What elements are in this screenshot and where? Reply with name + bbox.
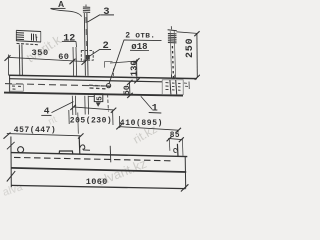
left end vertical [10,137,12,188]
right base block [162,80,183,95]
right column flanges [170,31,171,79]
right column center dashes [172,46,173,78]
label A squiggle [51,9,82,17]
tick left [5,55,11,61]
right column cap hatch [168,33,177,35]
plate corner blob [86,55,90,59]
dim 50 [129,82,131,95]
label 3 leader [100,14,114,16]
tick left mid [7,171,15,181]
dim 457(447) [7,134,81,136]
right stiffener [176,144,179,157]
svg-text:1: 1 [152,103,158,114]
hole circle [107,84,111,88]
svg-text:А: А [58,0,64,9]
label 1 underline [149,112,162,115]
dim 205(230) [73,107,114,110]
bracket hatch [17,32,25,34]
2 otv underline [124,39,162,42]
bottom edge [11,168,186,172]
svg-text:2: 2 [103,40,109,52]
below-beam verticals center [71,96,74,115]
center column flanges [84,13,85,76]
box 5 [89,96,95,98]
svg-text:350: 350 [32,48,49,58]
hidden corner [105,61,113,67]
beam left end [9,75,11,93]
label 12 underline [62,40,76,42]
dim line 350/60 [8,57,87,61]
svg-text:1060: 1060 [86,177,108,187]
dia18 underline [130,49,149,51]
bracket glyphs [32,34,38,41]
column centerline dashes [85,17,88,46]
svg-text:130: 130 [129,60,139,76]
leader 1 [141,96,153,109]
svg-text:60: 60 [58,52,69,62]
weld marks below beam center [89,85,110,89]
svg-text:12: 12 [63,33,75,44]
dim line 1060 [11,185,186,188]
leader dia18 [109,40,124,84]
beam mid line [5,84,115,87]
svg-text:250: 250 [185,38,196,58]
bump plate [59,151,72,154]
hole centerline dash [112,69,114,79]
tick right [82,59,88,65]
dashed plate 2 [81,51,93,61]
right end vertical [184,157,187,189]
beam bottom edge [4,93,183,96]
dim 85 [168,138,182,139]
tick mid [70,59,76,64]
circle clip [18,147,24,153]
top edge [11,153,187,157]
svg-text:ø18: ø18 [131,42,147,52]
weld box below beam left [9,84,23,91]
label 4 underline/leader [41,114,51,116]
beam second line [9,79,162,82]
dim 410(895) underline [119,127,178,131]
dim 250 [177,32,197,34]
svg-text:410(895): 410(895) [120,119,163,128]
beam top edge [9,75,197,78]
tick 1060 right [181,184,189,191]
right column top tick [170,26,172,29]
mid dashed [14,157,172,160]
svg-text:2 отв.: 2 отв. [125,31,155,40]
watermark [1,32,159,199]
dim 350/60 extension left [8,55,10,76]
svg-text:85: 85 [170,132,180,140]
center tick [109,146,112,163]
dashed ext [107,94,110,112]
dim 130 [110,61,138,63]
column left flange pair [72,47,75,76]
bracket posts [18,45,21,76]
left bracket console [16,30,41,31]
svg-text:205(230): 205(230) [70,116,112,125]
svg-text:457(447): 457(447) [14,126,56,135]
svg-text:3: 3 [103,6,109,18]
tick upper-left [7,142,15,149]
label 2 underline/leader [100,49,111,51]
left stiffener [78,136,81,154]
svg-text:50: 50 [122,85,132,95]
bracket dash row [17,43,39,44]
center column cap hatch [85,5,87,7]
svg-text:4: 4 [44,106,50,117]
svg-text:5: 5 [97,96,105,101]
